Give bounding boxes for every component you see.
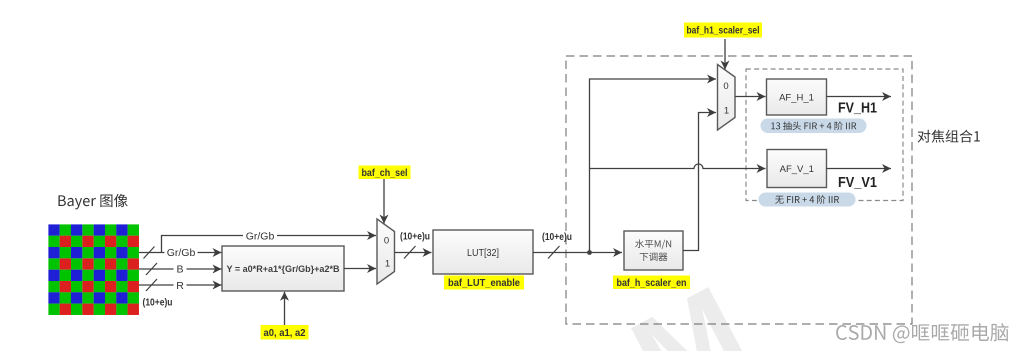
svg-text:R: R <box>176 280 184 292</box>
svg-text:1: 1 <box>724 106 729 117</box>
svg-text:(10+e)u: (10+e)u <box>542 232 572 243</box>
junction node at scaler input <box>587 250 592 255</box>
bus slash R <box>146 279 157 291</box>
wire AF_H_1 output FV_H1 <box>827 96 892 98</box>
group label 对焦组合1 <box>918 130 980 143</box>
block 水平M/N 下调器 (horizontal M/N downscaler) <box>624 231 683 270</box>
outer dashed group box 对焦组合1 <box>566 56 912 324</box>
label baf_ch_sel <box>359 166 411 180</box>
svg-text:baf_ch_sel: baf_ch_sel <box>362 168 408 179</box>
label baf_h_scaler_en <box>613 276 690 290</box>
svg-text:Y = a0*R+a1*{Gr/Gb}+a2*B: Y = a0*R+a1*{Gr/Gb}+a2*B <box>227 264 340 274</box>
net label Gr/Gb <box>165 247 198 260</box>
net label Gr/Gb (top) <box>243 230 277 242</box>
label baf_h1_scaler_sel <box>684 23 762 38</box>
wire Gr/Gb from Bayer to formula box <box>139 252 222 254</box>
wire mux M1 output to LUT <box>395 252 432 254</box>
block AF_V_1 <box>767 150 827 188</box>
bus slash LUT out <box>548 246 560 259</box>
svg-text:(10+e)u: (10+e)u <box>143 298 173 309</box>
bus slash Gr/Gb <box>144 247 155 259</box>
svg-text:AF_V_1: AF_V_1 <box>780 164 814 175</box>
block LUT[32] <box>433 230 533 274</box>
watermark CSDN @哐哐砸电脑 <box>836 323 1008 343</box>
svg-text:FV_H1: FV_H1 <box>838 101 877 117</box>
wire Gr/Gb branch to mux M1 input 0 <box>162 236 377 253</box>
scaler text line1 水平M/N <box>635 239 671 249</box>
net label B <box>174 263 187 276</box>
wire riser to mux M2 input 0 <box>590 79 717 253</box>
Bayer image grid <box>48 224 139 315</box>
svg-text:baf_LUT_enable: baf_LUT_enable <box>448 278 520 289</box>
wire AF_V_1 output FV_V1 <box>827 168 892 170</box>
svg-text:Gr/Gb: Gr/Gb <box>246 230 275 242</box>
svg-text:(10+e)u: (10+e)u <box>400 232 430 243</box>
svg-text:FV_V1: FV_V1 <box>838 175 877 191</box>
wire scaler output to mux M2 input 1 <box>683 113 716 251</box>
block AF_H_1 <box>767 79 827 115</box>
label Bayer 图像 <box>58 194 127 210</box>
wire R from Bayer to formula box <box>139 284 222 286</box>
svg-text:a0, a1, a2: a0, a1, a2 <box>264 328 306 339</box>
svg-text:0: 0 <box>384 236 389 247</box>
wire baf_ch_sel select into mux M1 <box>383 179 385 224</box>
net label R <box>174 280 187 293</box>
mux M2 (baf_h1_scaler_sel) <box>718 65 736 131</box>
svg-text:LUT[32]: LUT[32] <box>467 248 499 259</box>
wire mux M2 output to AF_H_1 <box>735 96 766 98</box>
bus slash mux M1 out <box>404 246 416 259</box>
scaler text line2 下调器 <box>640 253 668 262</box>
wire LUT output to horizontal scaler <box>533 252 622 254</box>
svg-text:baf_h_scaler_en: baf_h_scaler_en <box>617 278 687 289</box>
wire branch to AF_V_1 (hop over vertical) <box>590 164 766 168</box>
label baf_LUT_enable <box>444 276 524 290</box>
wire a0,a1,a2 into formula box <box>284 292 286 325</box>
bus slash B <box>146 263 157 275</box>
mux M1 (baf_ch_sel) <box>377 219 395 284</box>
note 13 抽头 FIR + 4 阶 IIR <box>761 119 867 134</box>
svg-text:Gr/Gb: Gr/Gb <box>167 247 196 259</box>
wire formula output to mux M1 input 1 <box>344 268 376 270</box>
block formula Y = a0*R+a1*{Gr/Gb}+a2*B <box>222 246 344 291</box>
wire baf_h1_scaler_sel select into mux M2 <box>724 39 726 70</box>
note 无 FIR + 4 阶 IIR <box>759 193 856 207</box>
svg-text:baf_h1_scaler_sel: baf_h1_scaler_sel <box>687 26 760 37</box>
svg-text:1: 1 <box>385 259 390 270</box>
svg-text:AF_H_1: AF_H_1 <box>779 92 814 103</box>
wire B from Bayer to formula box <box>139 268 222 270</box>
inner dashed group box (AF filters) <box>746 69 903 201</box>
label a0, a1, a2 <box>261 325 309 340</box>
svg-text:B: B <box>176 264 183 276</box>
svg-text:0: 0 <box>723 81 728 92</box>
